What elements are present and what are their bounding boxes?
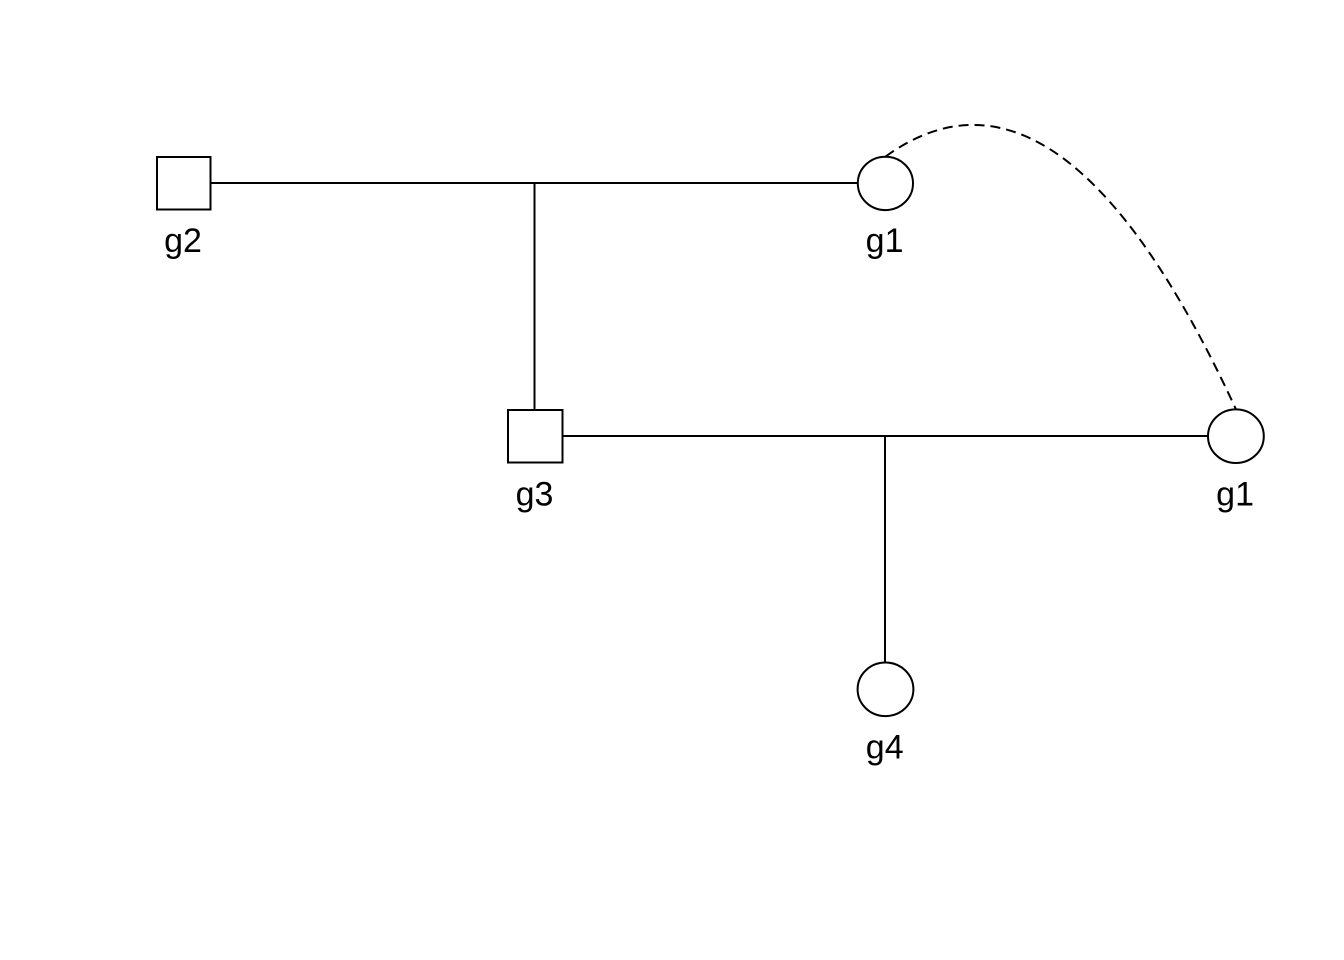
- circle g4: [858, 663, 914, 717]
- svg-text:g1: g1: [866, 222, 904, 260]
- circle g1 gen2: [1208, 409, 1264, 463]
- descent line to g4: [884, 436, 886, 663]
- marriage line g2-g1: [211, 182, 858, 184]
- svg-text:g3: g3: [516, 475, 554, 513]
- circle g1 gen1: [858, 157, 913, 210]
- marriage line g3-g1: [563, 435, 1208, 437]
- square g3: [508, 410, 563, 463]
- descent line to g3: [534, 183, 536, 411]
- square g2: [157, 157, 211, 210]
- svg-text:g4: g4: [866, 729, 904, 767]
- svg-text:g1: g1: [1216, 475, 1254, 513]
- dashed duplicate link g1-g1: [886, 125, 1236, 409]
- svg-text:g2: g2: [164, 222, 202, 260]
